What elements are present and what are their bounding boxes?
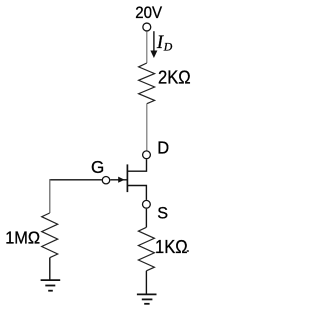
resistor R2 1M xyxy=(42,213,58,258)
wire: gate corner down to R2 xyxy=(49,179,51,213)
transistor Q1 channel bar xyxy=(126,164,128,192)
gate arrowhead xyxy=(118,177,124,183)
ground symbol right xyxy=(137,294,157,303)
svg-text:I: I xyxy=(156,33,164,53)
ground symbol left xyxy=(41,280,61,291)
wire: R1 bottom to node D xyxy=(146,104,148,151)
terminal circle 20V xyxy=(143,23,151,31)
svg-text:D: D xyxy=(157,137,169,158)
svg-text:1KΩ: 1KΩ xyxy=(155,236,188,257)
node G circle xyxy=(102,177,109,184)
resistor R1 2K xyxy=(139,63,155,104)
svg-text:D: D xyxy=(163,40,173,54)
svg-text:G: G xyxy=(91,156,104,176)
node D circle xyxy=(143,151,151,159)
svg-text:S: S xyxy=(157,204,168,222)
wire: gate lead left segment xyxy=(50,179,102,181)
svg-text:2KΩ: 2KΩ xyxy=(158,67,191,88)
svg-text:1MΩ: 1MΩ xyxy=(5,228,40,247)
wire: node S to R3 top xyxy=(145,209,147,228)
current arrow ID xyxy=(150,31,157,58)
resistor R3 1K xyxy=(138,227,154,270)
wire: source lead to node S xyxy=(127,186,146,200)
small dot after 1K label xyxy=(187,250,189,252)
svg-text:20V: 20V xyxy=(135,5,162,23)
wire: 20V terminal to R1 top xyxy=(146,32,148,63)
node S circle xyxy=(143,200,151,208)
wire: gate lead right segment with arrowhead xyxy=(110,179,127,181)
wire: node D to drain bend xyxy=(127,159,146,171)
wire: R3 bottom to ground xyxy=(145,271,147,295)
wire: R2 bottom to ground xyxy=(49,258,51,280)
